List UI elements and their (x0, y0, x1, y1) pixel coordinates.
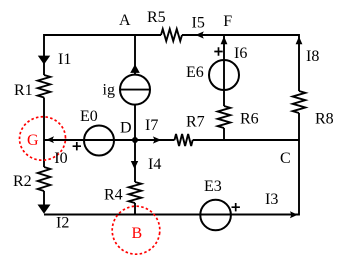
svg-text:R8: R8 (315, 111, 334, 128)
svg-text:I5: I5 (192, 15, 205, 32)
svg-text:I1: I1 (58, 51, 71, 68)
svg-text:C: C (280, 150, 291, 167)
svg-text:G: G (27, 132, 39, 149)
svg-text:I3: I3 (265, 191, 278, 208)
svg-text:E3: E3 (204, 178, 222, 195)
svg-text:E0: E0 (80, 108, 98, 125)
svg-text:R7: R7 (186, 114, 205, 131)
svg-text:I2: I2 (56, 215, 69, 232)
svg-text:ig: ig (103, 82, 115, 99)
svg-text:I4: I4 (148, 156, 161, 173)
svg-text:R1: R1 (14, 82, 33, 99)
svg-text:R6: R6 (240, 111, 259, 128)
svg-text:R5: R5 (147, 9, 166, 26)
svg-text:I8: I8 (306, 48, 319, 65)
svg-text:E6: E6 (186, 64, 204, 81)
svg-text:A: A (119, 12, 131, 29)
svg-text:R2: R2 (13, 173, 32, 190)
svg-text:F: F (223, 13, 232, 30)
svg-text:I6: I6 (234, 45, 247, 62)
svg-text:B: B (132, 225, 143, 242)
svg-text:R4: R4 (104, 187, 123, 204)
svg-text:I0: I0 (54, 150, 67, 167)
svg-text:I7: I7 (145, 117, 158, 134)
svg-text:D: D (120, 120, 132, 137)
